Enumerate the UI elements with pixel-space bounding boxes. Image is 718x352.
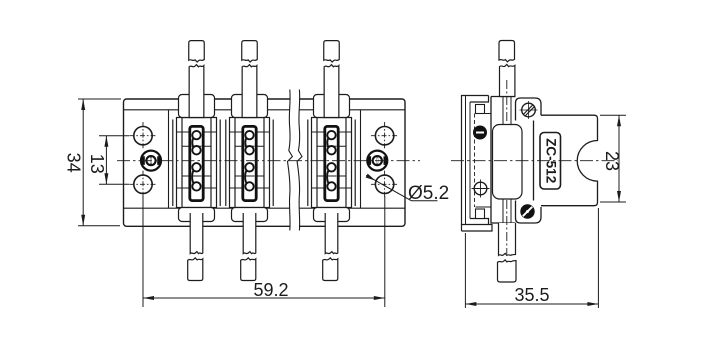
right block outline [541, 115, 598, 206]
dim 13 line [105, 136, 107, 184]
dim 59.2 extension right [384, 196, 386, 307]
left partition [168, 110, 170, 208]
hole top-right [371, 122, 398, 149]
leader shoulder [412, 200, 438, 202]
svg-text:59.2: 59.2 [253, 280, 288, 300]
rail plate inner line A [465, 96, 467, 225]
hole bottom-right [371, 171, 398, 198]
rail plate inner line B [469, 102, 471, 219]
central housing body [491, 97, 516, 224]
svg-text:34: 34 [63, 153, 83, 173]
label plate [540, 133, 561, 190]
vertical centerline top post [506, 80, 508, 122]
dim 23 extension bottom [600, 201, 626, 203]
dim 35.5 extension right [597, 208, 599, 308]
top ear [516, 98, 542, 121]
dim 35.5 line [465, 303, 598, 305]
top ear screw [522, 103, 536, 117]
svg-text:Ø5.2: Ø5.2 [408, 183, 449, 204]
arrow 34 top [81, 99, 85, 110]
dim 34 extension lines [78, 98, 121, 100]
dim 34 line [82, 99, 84, 226]
hole bottom-left [129, 171, 156, 198]
bottom ear [516, 201, 542, 224]
dim 59.2 extension left [142, 196, 144, 307]
svg-text:35.5: 35.5 [514, 285, 549, 305]
right partition [360, 110, 362, 208]
dim 13 extension lines [99, 135, 129, 137]
top tooth [476, 105, 485, 114]
horizontal centerline left view [117, 160, 420, 162]
top lip [470, 96, 489, 103]
bottom post lower [498, 260, 517, 282]
lever slot lines top [502, 97, 504, 125]
bottom tooth [476, 209, 485, 219]
top shelf [476, 113, 492, 115]
vertical centerline bottom post [506, 200, 508, 254]
top post upper [499, 41, 515, 62]
hole top-left [129, 122, 156, 149]
window [493, 125, 523, 200]
svg-text:23: 23 [602, 151, 622, 171]
arrow 13 bottom [104, 173, 108, 184]
bottom shelf [476, 206, 492, 208]
module 3 [308, 41, 355, 281]
arrow 59.2 right [374, 296, 385, 300]
top rail line [124, 109, 406, 111]
bottom ear screw black [520, 204, 534, 218]
dim 23 extension top [600, 114, 626, 116]
clamp screw right [367, 151, 387, 171]
svg-text:13: 13 [87, 154, 107, 174]
arrow 59.2 left [143, 296, 154, 300]
rail screw cross [472, 180, 490, 198]
break band [290, 90, 299, 231]
leader line dia 5.2 [366, 175, 411, 201]
break line left [288, 90, 293, 231]
rail screw black [473, 126, 487, 140]
arrow 34 bottom [81, 215, 85, 226]
dim 59.2 line [143, 297, 385, 299]
top post lower [500, 64, 515, 96]
centerline right view [451, 160, 618, 162]
bottom lip [470, 219, 489, 225]
arrow 35.5 right [587, 302, 598, 306]
clamp screw left [141, 151, 161, 171]
dim 35.5 extension left [464, 233, 466, 308]
bottom post upper [499, 223, 516, 255]
arrow 13 top [104, 136, 108, 147]
bottom rail line [124, 207, 406, 209]
lever slot lines bottom [502, 199, 504, 223]
rail flange outer [462, 96, 493, 232]
dim 23 line [618, 115, 620, 202]
right edge between ears [533, 121, 535, 201]
left view base body [124, 99, 406, 226]
arrow 35.5 left [465, 302, 476, 306]
arrow 23 bottom [617, 191, 621, 202]
break line right [297, 90, 302, 231]
module 1 [173, 41, 220, 281]
arrow 23 top [617, 115, 621, 126]
arrow leader [366, 174, 376, 181]
module 2 [226, 41, 273, 281]
hidden line rail [474, 114, 476, 208]
